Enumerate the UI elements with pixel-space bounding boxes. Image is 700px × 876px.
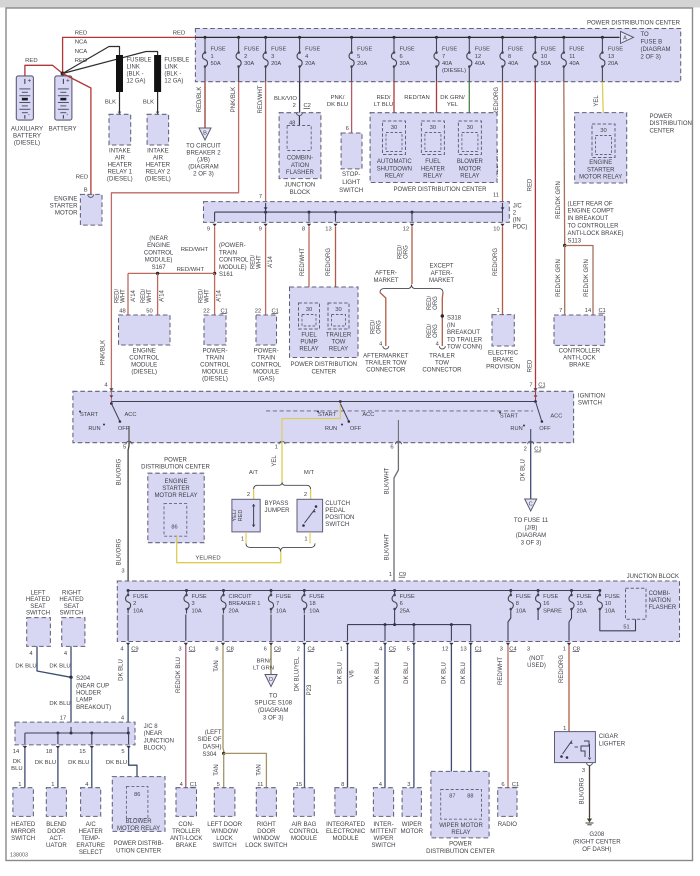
intermittent wiper switch xyxy=(373,788,393,817)
power distribution center box (top) xyxy=(195,29,680,82)
fusible link 2 (BLK - 12 GA) xyxy=(154,55,161,92)
svg-text:LINK: LINK xyxy=(164,64,177,70)
svg-text:CONNECTOR: CONNECTOR xyxy=(422,367,462,374)
svg-text:FUSE: FUSE xyxy=(400,47,415,53)
svg-text:LOCK: LOCK xyxy=(216,835,233,842)
wire fusible link 2 to intake air heater relay 2 (BLK) xyxy=(157,92,159,114)
svg-text:30: 30 xyxy=(430,125,436,131)
fuse CB1 (junction block) xyxy=(222,589,225,592)
wire fusible link 1 to intake air heater relay 1 (BLK) xyxy=(119,92,121,114)
svg-text:2 OF 3): 2 OF 3) xyxy=(193,170,214,177)
svg-text:JUMPER: JUMPER xyxy=(265,507,291,514)
svg-text:13: 13 xyxy=(608,54,614,60)
svg-text:86: 86 xyxy=(171,525,177,531)
svg-text:ORG: ORG xyxy=(404,245,410,259)
powertrain control module (gas) xyxy=(256,315,277,345)
svg-text:HOLDER: HOLDER xyxy=(76,691,102,697)
svg-text:TRAILER: TRAILER xyxy=(326,333,352,339)
svg-text:COMBIN-: COMBIN- xyxy=(287,154,313,161)
svg-text:DK BLU: DK BLU xyxy=(375,662,381,684)
svg-text:PNK/BLK: PNK/BLK xyxy=(101,340,107,365)
svg-text:HEATER: HEATER xyxy=(421,166,446,172)
svg-text:DK BLU: DK BLU xyxy=(49,701,70,707)
wiper motor relay (power distribution center) xyxy=(431,771,489,838)
svg-text:7: 7 xyxy=(276,601,279,607)
svg-text:RED/WHT: RED/WHT xyxy=(177,267,205,273)
svg-text:AUTOMATIC: AUTOMATIC xyxy=(377,159,412,165)
svg-text:17: 17 xyxy=(60,716,66,722)
connector D to splice S108 xyxy=(265,675,277,687)
fuse 16 (junction block) xyxy=(537,589,540,592)
fuse 2 (junction block) xyxy=(127,589,130,592)
wire J/C 8 pin 15 DK BLU to a/c heater temperature select xyxy=(91,748,93,788)
svg-text:(DIAGRAM: (DIAGRAM xyxy=(641,47,671,53)
controller anti-lock brake (lower) xyxy=(176,788,197,817)
svg-text:20A: 20A xyxy=(229,608,239,614)
svg-text:11: 11 xyxy=(257,782,263,788)
svg-text:12: 12 xyxy=(442,646,448,652)
svg-text:DISTRIBUTION CENTER: DISTRIBUTION CENTER xyxy=(141,465,210,471)
svg-text:BLK/ORG: BLK/ORG xyxy=(117,538,123,565)
J/C 8 internal bus wire xyxy=(25,732,129,734)
svg-text:SWITCH: SWITCH xyxy=(339,187,363,194)
svg-text:CONTROL: CONTROL xyxy=(251,362,281,369)
svg-text:DK BLU: DK BLU xyxy=(118,659,124,681)
svg-text:MODULE): MODULE) xyxy=(219,265,247,271)
power distribution center box (relay row) xyxy=(370,113,497,183)
svg-text:RED/WHT: RED/WHT xyxy=(258,85,264,113)
svg-text:FUEL: FUEL xyxy=(301,333,317,339)
svg-text:DK BLU: DK BLU xyxy=(106,760,127,766)
svg-text:(RIGHT CENTER: (RIGHT CENTER xyxy=(573,838,621,845)
svg-text:MIRROR: MIRROR xyxy=(11,828,36,835)
wire fuse 6 RED/LT BLU to automatic shutdown relay xyxy=(393,82,395,121)
svg-text:WHT: WHT xyxy=(205,289,211,303)
svg-text:8: 8 xyxy=(215,646,218,652)
svg-text:START: START xyxy=(80,412,99,418)
svg-text:ERATURE: ERATURE xyxy=(76,842,105,849)
svg-text:ACT-: ACT- xyxy=(49,835,63,842)
svg-text:3: 3 xyxy=(407,782,410,788)
svg-text:MODULE: MODULE xyxy=(333,835,359,842)
svg-text:2: 2 xyxy=(524,447,527,453)
svg-text:BLU: BLU xyxy=(11,766,22,772)
svg-text:2: 2 xyxy=(293,103,296,109)
svg-text:FUSE: FUSE xyxy=(543,594,558,600)
svg-text:(BLK -: (BLK - xyxy=(127,71,144,77)
svg-text:PUMP: PUMP xyxy=(300,340,317,346)
svg-text:13: 13 xyxy=(460,646,466,652)
wire ignition pin 1 YEL to A/T-M/T brace xyxy=(281,443,283,483)
svg-text:LINK: LINK xyxy=(127,64,140,70)
svg-text:BLK/ORG: BLK/ORG xyxy=(117,458,123,485)
wire ignition pin 6 BLK/WHT to junction block pin 1 C9 xyxy=(394,443,398,581)
svg-text:OF DASH): OF DASH) xyxy=(582,846,611,853)
svg-text:1: 1 xyxy=(211,54,214,60)
wire JB pin 4 C5 DK BLU to intermittent wiper switch xyxy=(384,645,386,788)
svg-text:2 OF 3): 2 OF 3) xyxy=(641,54,661,60)
wire J/C 2 pin 9 to PCM gas pin 22 RED/WHT xyxy=(265,227,267,316)
svg-text:FUSE: FUSE xyxy=(276,594,291,600)
svg-text:FUSE: FUSE xyxy=(442,47,457,53)
svg-text:POWER-: POWER- xyxy=(254,348,279,355)
svg-text:12 GA): 12 GA) xyxy=(164,78,183,84)
air bag control module xyxy=(294,788,315,817)
svg-text:25A: 25A xyxy=(400,608,410,614)
svg-text:11: 11 xyxy=(569,54,575,60)
svg-text:10A: 10A xyxy=(309,608,319,614)
cigar lighter xyxy=(555,732,596,763)
splice S167 xyxy=(156,272,159,275)
svg-text:30: 30 xyxy=(335,307,341,313)
fuse 5 20A (PDC) xyxy=(350,36,353,39)
svg-text:18: 18 xyxy=(309,601,315,607)
svg-text:NCA: NCA xyxy=(75,49,88,55)
svg-text:6: 6 xyxy=(400,54,403,60)
aftermarket / except aftermarket brace xyxy=(380,285,443,293)
svg-text:BRAKE: BRAKE xyxy=(493,357,514,364)
svg-text:3 OF 3): 3 OF 3) xyxy=(263,715,284,722)
wire fuse 2 PNK/BLK to ignition switch pin 4 xyxy=(111,82,238,392)
svg-text:(DIESEL): (DIESEL) xyxy=(14,140,40,147)
svg-text:MODULE: MODULE xyxy=(131,362,157,369)
fuse 8 40A (PDC) xyxy=(501,36,504,39)
splice S318 xyxy=(441,314,444,317)
svg-text:2: 2 xyxy=(133,601,136,607)
svg-text:UATOR: UATOR xyxy=(46,842,67,849)
a/c heater temperature select xyxy=(81,788,101,817)
svg-text:(NEAR: (NEAR xyxy=(144,731,163,737)
wire battery to engine starter motor (RED) xyxy=(63,74,91,195)
fuse 11 40A (PDC) xyxy=(562,36,565,39)
auxiliary battery (diesel) xyxy=(16,76,33,120)
svg-text:POWER: POWER xyxy=(650,114,673,120)
svg-text:YEL/RED: YEL/RED xyxy=(195,556,220,562)
svg-text:ENGINE: ENGINE xyxy=(54,195,77,202)
J/C 2 (in PDC) bus bar xyxy=(204,202,510,223)
wire J/C 2 pin 13 RED/ORG to trailer tow relay xyxy=(336,227,339,304)
svg-text:SWITCH: SWITCH xyxy=(213,842,237,849)
svg-text:5: 5 xyxy=(217,782,220,788)
svg-text:12: 12 xyxy=(403,227,409,233)
svg-text:BLK/WHT: BLK/WHT xyxy=(385,467,391,494)
combination flasher (junction block, top) xyxy=(279,113,321,179)
svg-text:RED/DK GRN: RED/DK GRN xyxy=(556,259,562,297)
svg-text:3: 3 xyxy=(192,601,195,607)
svg-text:FUSE B: FUSE B xyxy=(641,40,663,46)
svg-text:V6: V6 xyxy=(349,670,355,678)
svg-text:TO CIRCUIT: TO CIRCUIT xyxy=(186,142,221,149)
wire fuse 3 RED/WHT to J/C 2 pin 7 xyxy=(265,82,267,202)
svg-text:A'14: A'14 xyxy=(160,289,166,301)
svg-text:FLASHER: FLASHER xyxy=(649,605,677,611)
J/C 2 internal bus wire xyxy=(215,211,503,213)
svg-text:30: 30 xyxy=(600,128,606,134)
svg-text:MODULE: MODULE xyxy=(291,835,317,842)
svg-text:JUNCTION: JUNCTION xyxy=(284,182,315,189)
svg-text:(DIAGRAM: (DIAGRAM xyxy=(188,163,218,170)
wire JB pin 12 DK BLU to wiper motor relay 87 xyxy=(450,645,452,790)
svg-text:(DIAGRAM: (DIAGRAM xyxy=(516,532,546,539)
svg-text:S304: S304 xyxy=(202,752,217,758)
svg-text:RED/BLK: RED/BLK xyxy=(197,87,203,113)
svg-text:PROVISION: PROVISION xyxy=(486,364,520,371)
svg-text:6: 6 xyxy=(390,445,393,451)
svg-text:14: 14 xyxy=(13,749,20,755)
svg-text:TAN: TAN xyxy=(256,764,262,776)
svg-text:DK BLU: DK BLU xyxy=(521,459,527,481)
svg-text:DK BLU: DK BLU xyxy=(49,664,70,670)
svg-text:TRAIN: TRAIN xyxy=(219,250,237,256)
svg-text:(DIESEL): (DIESEL) xyxy=(202,376,228,383)
svg-text:BLK: BLK xyxy=(143,99,154,105)
engine starter motor xyxy=(80,194,102,225)
connector A to fuse B xyxy=(621,31,634,43)
svg-text:DISTRIBUTION: DISTRIBUTION xyxy=(650,121,692,127)
svg-text:HEATED: HEATED xyxy=(11,821,36,828)
svg-text:RUN: RUN xyxy=(88,426,100,432)
svg-text:COMBI-: COMBI- xyxy=(649,591,671,597)
powertrain control module (diesel) xyxy=(204,315,226,345)
svg-text:STARTER: STARTER xyxy=(162,486,190,492)
svg-text:(J/B): (J/B) xyxy=(197,156,210,163)
wire NCA to fusible link 2 xyxy=(63,52,158,74)
fuse 3 20A (PDC) xyxy=(264,36,267,39)
svg-text:6: 6 xyxy=(264,646,267,652)
wire J/C 2 pin 9 RED/WHT to splice S161 xyxy=(214,227,216,274)
ignition switch section 2 output stub xyxy=(397,420,399,443)
svg-text:1: 1 xyxy=(275,445,278,451)
svg-text:MOTOR: MOTOR xyxy=(459,166,482,172)
svg-text:DK BLU: DK BLU xyxy=(442,662,448,684)
svg-text:WHT: WHT xyxy=(147,289,153,303)
junction block lower bus from fuse 6 xyxy=(394,614,396,625)
wire J/C 2 pin 10 RED/ORG to electric brake provision xyxy=(502,227,504,315)
svg-text:2: 2 xyxy=(247,492,250,498)
svg-text:3 OF 3): 3 OF 3) xyxy=(521,539,542,546)
svg-text:J/C: J/C xyxy=(513,203,523,209)
svg-text:FUSE: FUSE xyxy=(516,594,531,600)
svg-text:6: 6 xyxy=(501,782,504,788)
wire S113 to controller anti-lock brake pin 14 xyxy=(565,246,593,316)
svg-text:RED/TAN: RED/TAN xyxy=(404,95,429,101)
wire S167 to ECM pin 50 xyxy=(157,273,159,315)
svg-text:SPARE: SPARE xyxy=(543,608,562,614)
svg-text:POWER DISTRIBUTION CENTER: POWER DISTRIBUTION CENTER xyxy=(393,187,487,193)
wire fuse 13 YEL to engine starter motor relay xyxy=(602,82,603,124)
svg-text:FUSE: FUSE xyxy=(305,47,320,53)
power distribution center box (fuel pump / trailer tow relays) xyxy=(290,287,359,358)
fuse 6 (junction block) xyxy=(393,589,396,592)
svg-text:A'14: A'14 xyxy=(268,255,274,267)
svg-text:FUSE: FUSE xyxy=(192,594,207,600)
svg-text:(DIAGRAM: (DIAGRAM xyxy=(258,707,288,714)
fusible link 1 (BLK - 12 GA) xyxy=(116,55,123,92)
svg-text:B: B xyxy=(203,131,207,137)
svg-text:7: 7 xyxy=(559,308,562,314)
wire JB pin 4 C9 DK BLU to J/C 8 pin 4 xyxy=(127,645,129,722)
svg-text:30: 30 xyxy=(467,125,473,131)
svg-text:1: 1 xyxy=(241,537,244,543)
svg-text:TRAIN: TRAIN xyxy=(206,355,224,362)
svg-text:RED/WHT: RED/WHT xyxy=(300,248,306,276)
svg-text:YEL: YEL xyxy=(272,455,278,467)
svg-text:DOOR: DOOR xyxy=(47,828,66,835)
svg-text:RED/ORG: RED/ORG xyxy=(494,87,500,115)
svg-text:SWITCH: SWITCH xyxy=(325,521,349,528)
junction block fuse 16 stub (not used) xyxy=(537,614,539,621)
fuse 8 (junction block) xyxy=(509,589,512,592)
svg-text:A/T: A/T xyxy=(249,470,259,476)
svg-text:ELECTRONIC: ELECTRONIC xyxy=(326,828,366,835)
svg-text:9: 9 xyxy=(207,227,210,233)
svg-text:15: 15 xyxy=(296,782,302,788)
svg-text:ATION: ATION xyxy=(291,162,309,169)
svg-text:TO FUSE 11: TO FUSE 11 xyxy=(514,517,549,524)
svg-text:CLUTCH: CLUTCH xyxy=(325,500,350,507)
intake air heater relay 2 (diesel) xyxy=(147,114,169,145)
svg-text:POWER: POWER xyxy=(449,842,472,848)
svg-text:FUSIBLE: FUSIBLE xyxy=(164,57,189,63)
svg-text:RED: RED xyxy=(527,359,533,372)
svg-text:+: + xyxy=(66,77,70,84)
svg-text:FUSE: FUSE xyxy=(271,47,286,53)
svg-text:ENGINE: ENGINE xyxy=(164,479,187,485)
svg-text:13: 13 xyxy=(325,227,331,233)
ignition switch section 1 xyxy=(110,402,113,405)
svg-text:RED/: RED/ xyxy=(376,95,390,101)
engine starter motor relay coil box xyxy=(164,504,187,537)
svg-text:IN BREAKOUT: IN BREAKOUT xyxy=(568,216,609,222)
svg-text:DK BLU/YEL: DK BLU/YEL xyxy=(295,656,301,691)
wire to aftermarket trailer tow connector RED/ORG xyxy=(380,293,386,346)
fuel pump relay xyxy=(299,303,320,329)
svg-text:DK BLU: DK BLU xyxy=(327,102,348,108)
svg-text:CONTROLLER: CONTROLLER xyxy=(559,347,601,354)
svg-text:TRAILER: TRAILER xyxy=(429,353,455,360)
svg-text:22: 22 xyxy=(203,308,209,314)
wire to bypass jumper pin 2 YEL xyxy=(253,489,255,499)
svg-text:POWER: POWER xyxy=(164,458,187,464)
wire JB pin 2 C4 DK BLU/YEL to air bag control module xyxy=(303,645,305,788)
svg-text:ANTI-LOCK BRAKE): ANTI-LOCK BRAKE) xyxy=(568,231,624,237)
fuse 13 20A (PDC) xyxy=(601,36,604,39)
svg-text:50: 50 xyxy=(146,308,152,314)
wire to trailer tow connector RED/ORG via S318 xyxy=(441,293,444,346)
svg-text:2: 2 xyxy=(304,492,307,498)
svg-text:50A: 50A xyxy=(541,61,551,67)
svg-text:AFTER-: AFTER- xyxy=(375,271,397,277)
svg-text:5: 5 xyxy=(121,749,124,755)
wire S113 to controller anti-lock brake pin 7 xyxy=(564,246,566,316)
svg-text:RELAY: RELAY xyxy=(385,174,404,180)
electric brake provision xyxy=(492,315,514,346)
heated mirror switch xyxy=(13,788,34,817)
svg-text:FUSE: FUSE xyxy=(608,47,623,53)
svg-text:7: 7 xyxy=(442,54,445,60)
svg-text:3: 3 xyxy=(582,768,585,774)
svg-text:TO: TO xyxy=(269,692,278,699)
intake air heater relay 1 (diesel) xyxy=(109,114,131,145)
svg-text:J/C 8: J/C 8 xyxy=(144,724,159,730)
wiper motor xyxy=(402,788,421,817)
svg-text:22: 22 xyxy=(255,308,261,314)
fuel heater relay xyxy=(421,121,444,155)
svg-text:5: 5 xyxy=(407,646,410,652)
svg-text:PNK/: PNK/ xyxy=(331,95,345,101)
fuse 15 (junction block) xyxy=(570,589,573,592)
wire to clutch pedal position switch pin 2 YEL xyxy=(310,489,312,499)
svg-text:15: 15 xyxy=(79,749,85,755)
svg-text:88: 88 xyxy=(467,793,473,799)
wire NCA to fusible link 1 xyxy=(63,47,120,74)
svg-text:BATTERY: BATTERY xyxy=(13,133,41,140)
wire fuse 11 RED/DK GRN to S113 xyxy=(563,82,566,246)
fuse 12 40A (PDC) xyxy=(468,36,471,39)
svg-text:RED/ORG: RED/ORG xyxy=(559,655,565,683)
svg-text:INTER-: INTER- xyxy=(373,821,393,828)
svg-text:RELAY: RELAY xyxy=(451,830,470,836)
svg-text:DK BLU: DK BLU xyxy=(338,662,344,684)
svg-text:RADIO: RADIO xyxy=(498,821,518,828)
svg-text:FUSE: FUSE xyxy=(475,47,490,53)
svg-text:RED/ORG: RED/ORG xyxy=(493,248,499,276)
svg-text:S113: S113 xyxy=(568,238,582,244)
svg-text:10: 10 xyxy=(493,227,499,233)
wire YEL/RED from relay 86 to clutch/bypass brace xyxy=(177,536,281,563)
svg-text:FLASHER: FLASHER xyxy=(286,169,315,176)
svg-text:S318: S318 xyxy=(447,316,462,322)
svg-text:20A: 20A xyxy=(305,61,315,67)
svg-text:OFF: OFF xyxy=(350,426,362,432)
svg-text:PEDAL: PEDAL xyxy=(325,507,346,514)
svg-text:B: B xyxy=(84,188,88,194)
trailer tow relay xyxy=(328,303,349,329)
svg-text:7: 7 xyxy=(529,383,532,389)
svg-text:G208: G208 xyxy=(589,831,605,838)
fuse 18 (junction block) xyxy=(303,589,306,592)
svg-text:POWER DISTRIB-: POWER DISTRIB- xyxy=(114,841,164,847)
svg-text:ACC: ACC xyxy=(362,412,374,418)
svg-text:CON-: CON- xyxy=(178,821,194,828)
svg-text:40A: 40A xyxy=(569,61,579,67)
svg-text:TRAILER TOW: TRAILER TOW xyxy=(365,360,407,367)
bypass jumper xyxy=(232,499,260,532)
svg-text:1: 1 xyxy=(18,782,21,788)
svg-text:RELAY: RELAY xyxy=(460,174,479,180)
svg-text:MOTOR: MOTOR xyxy=(401,828,424,835)
svg-text:A: A xyxy=(623,36,627,42)
svg-text:CONTROL: CONTROL xyxy=(144,250,174,256)
fuse bus wire inside PDC xyxy=(195,36,619,38)
J/C 8 (near junction block) bus bar xyxy=(15,722,135,745)
stop light switch xyxy=(341,133,362,169)
svg-text:SWITCH: SWITCH xyxy=(59,610,83,617)
svg-text:TAN: TAN xyxy=(214,764,220,776)
svg-text:S204: S204 xyxy=(76,676,91,682)
wire ignition pin 2 DK BLU to fuse 11 connector C xyxy=(530,443,532,499)
svg-text:ENGINE COMPT: ENGINE COMPT xyxy=(568,209,615,215)
svg-text:16: 16 xyxy=(543,601,549,607)
svg-text:87: 87 xyxy=(449,793,455,799)
blower motor relay (power distribution center) xyxy=(112,777,165,832)
wire JB pin 1 VIO to integrated electronic module xyxy=(347,645,349,788)
svg-text:CONTROL: CONTROL xyxy=(219,258,249,264)
svg-text:6: 6 xyxy=(346,126,349,132)
svg-text:POSITION: POSITION xyxy=(325,514,354,521)
ignition switch section 3 output stub xyxy=(530,429,532,443)
svg-text:S167: S167 xyxy=(152,265,167,271)
